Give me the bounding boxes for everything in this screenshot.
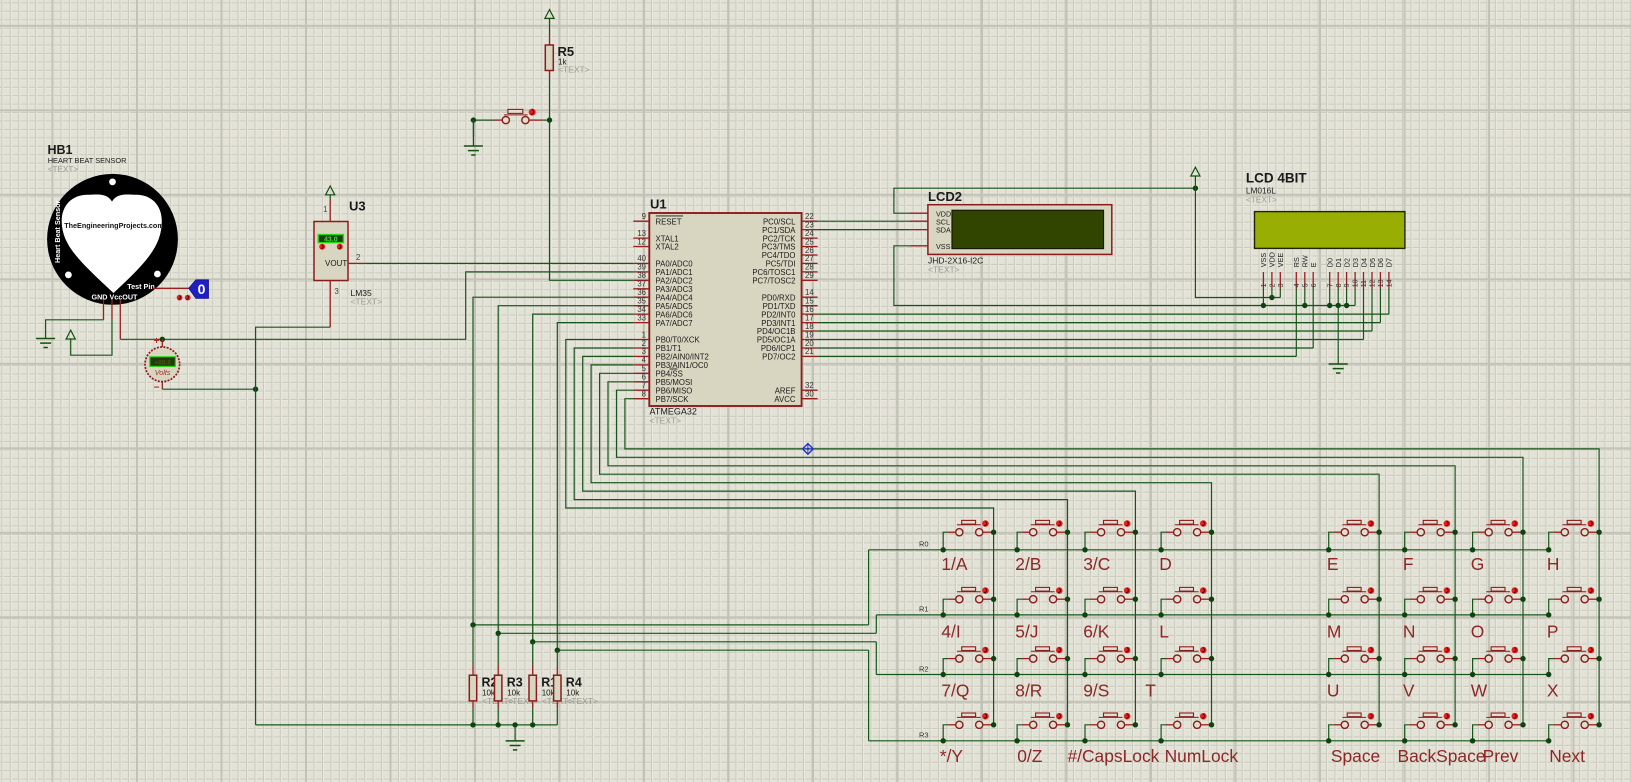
label E <box>1327 554 1339 574</box>
svg-text:L: L <box>1159 621 1169 641</box>
svg-text:U3: U3 <box>349 199 366 214</box>
display LCD2 JHD-2X16-I2C body <box>928 205 1112 255</box>
pin 4 PB3/AIN1/OC0 (U1 left) <box>633 356 708 370</box>
label R0 <box>919 540 929 549</box>
button X <box>1546 647 1602 678</box>
label NumLock <box>1165 746 1239 766</box>
label G <box>1471 554 1485 574</box>
svg-text:9: 9 <box>642 212 646 221</box>
label 7/Q <box>941 681 969 701</box>
label 8/R <box>1015 681 1042 701</box>
wire RS to PD7 line <box>1295 289 1297 357</box>
wire D6 to PD3 line <box>1379 289 1381 323</box>
button BackSpace <box>1402 713 1458 744</box>
svg-text:RESET: RESET <box>656 217 682 226</box>
label Space <box>1331 746 1380 766</box>
svg-text:<TEXT>: <TEXT> <box>928 265 960 275</box>
svg-text:0: 0 <box>198 281 206 297</box>
label 0/Z <box>1017 746 1043 766</box>
svg-text:PC7/TOSC2: PC7/TOSC2 <box>752 277 795 286</box>
button 1/A <box>941 520 997 552</box>
logic state tag 0 <box>189 280 209 298</box>
junction button-ground <box>471 117 476 122</box>
pin 14 D7 (LM016L) <box>1385 258 1394 289</box>
label LM35 <box>351 288 383 307</box>
pin 3 U3 GND wire down-left-down to ground rail <box>256 281 339 725</box>
temperature sensor U3 LM35 body <box>314 222 348 281</box>
label W <box>1471 681 1488 701</box>
pin VDD LCD2 wire to power node <box>894 186 1198 214</box>
wire power flag to R5 <box>549 23 551 45</box>
pin 14 PD0/RXD (U1 right) <box>762 288 818 302</box>
svg-text:<TEXT>: <TEXT> <box>558 65 590 75</box>
probe dots (test pin) <box>177 295 191 301</box>
wire VSS to gnd rail <box>1261 289 1266 309</box>
label N <box>1403 621 1416 641</box>
svg-text:29: 29 <box>805 271 814 280</box>
wire HB1 OUT to U1 PA1 (node with voltmeter +) <box>120 272 633 342</box>
wire HB1 GND pin to ground <box>46 300 104 330</box>
label R3 10k <box>507 676 539 707</box>
label U1 <box>650 197 667 212</box>
wire PD6 to LCD E <box>818 347 1314 349</box>
label LCD2 <box>928 189 962 204</box>
wire D1 to gnd rail <box>1336 289 1341 309</box>
svg-text:<TEXT>: <TEXT> <box>48 165 79 174</box>
svg-text:LCD2: LCD2 <box>928 189 962 204</box>
label BackSpace <box>1398 746 1486 766</box>
wire D4 to PD5 line <box>1363 289 1365 340</box>
svg-text:1: 1 <box>323 205 327 214</box>
wire D7 to PD2 line <box>1388 289 1390 315</box>
label R1 10k <box>541 676 573 707</box>
pin 10 D3 (LM016L) <box>1351 258 1360 289</box>
wire D0 to gnd rail <box>1327 289 1332 309</box>
ground (push button) <box>464 120 483 155</box>
wire PB5 to keypad column 6 <box>608 382 1455 725</box>
svg-text:V: V <box>1403 681 1415 701</box>
pin 35 PA5/ADC5 (U1 left) <box>633 297 693 311</box>
wire PB6 to keypad column 7 <box>617 390 1524 725</box>
label 4/I <box>941 621 960 641</box>
pin 1 VSS (LM016L) <box>1259 253 1268 289</box>
label 5/J <box>1015 621 1038 641</box>
pin 40 PA0/ADC0 (U1 left) <box>633 254 693 268</box>
svg-text:AVCC: AVCC <box>774 395 795 404</box>
pin 32 AREF (U1 right) <box>775 381 818 395</box>
svg-text:43.0: 43.0 <box>324 237 338 244</box>
ground (LM016L) <box>1329 355 1348 373</box>
button Next <box>1546 713 1602 744</box>
wire PD4 to LCD D5 <box>818 330 1372 332</box>
wire U1 R3 net: PA pin to resistor R4 junction and keypad row R3 <box>555 323 869 741</box>
svg-text:G: G <box>1471 554 1485 574</box>
ground (resistor rail) <box>506 725 525 750</box>
pin 2 VDD (LM016L) <box>1268 252 1277 288</box>
resistor R2 10k <box>469 625 476 725</box>
svg-text:3/C: 3/C <box>1083 554 1110 574</box>
svg-text:14: 14 <box>1385 279 1394 287</box>
button F <box>1402 520 1458 552</box>
wire PB2 to keypad column 3 <box>583 356 1136 724</box>
label 9/S <box>1083 681 1109 701</box>
label R2 <box>919 664 929 673</box>
wire PB1 to keypad column 2 <box>574 348 1067 725</box>
svg-text:F: F <box>1403 554 1414 574</box>
svg-text:D7: D7 <box>1385 258 1394 267</box>
svg-text:P: P <box>1547 621 1559 641</box>
svg-text:9/S: 9/S <box>1083 681 1109 701</box>
pin 17 PD3/INT1 (U1 right) <box>761 313 817 327</box>
pin 21 PD7/OC2 (U1 right) <box>762 347 817 361</box>
svg-text:PA7/ADC7: PA7/ADC7 <box>656 319 693 328</box>
button 2/B <box>1014 520 1070 552</box>
svg-text:2: 2 <box>356 253 360 262</box>
button H <box>1546 520 1602 552</box>
svg-text:8/R: 8/R <box>1015 681 1042 701</box>
svg-text:M: M <box>1327 621 1342 641</box>
pin 11 D4 (LM016L) <box>1359 258 1368 289</box>
svg-text:HB1: HB1 <box>48 143 73 157</box>
pin 39 PA1/ADC1 (U1 left) <box>633 263 692 277</box>
wire U1 R2 net: PA pin to resistor R1 junction and keypad row R2 <box>530 314 876 674</box>
button M <box>1326 587 1382 617</box>
pin 36 PA4/ADC4 (U1 left) <box>633 288 693 302</box>
label JHD-2X16-I2C <box>928 256 983 275</box>
label R5 value 1k <box>558 44 590 75</box>
svg-text:W: W <box>1471 681 1488 701</box>
label LCD 4BIT LM016L <box>1246 171 1308 205</box>
pin 27 PC5/TDI (U1 right) <box>766 254 818 268</box>
pin 37 PA3/ADC3 (U1 left) <box>633 280 692 294</box>
pin 8 PB7/SCK (U1 left) <box>633 390 689 404</box>
svg-text:+88.8: +88.8 <box>154 360 171 367</box>
button V <box>1402 647 1458 678</box>
wire keypad row line R2 <box>876 674 1548 676</box>
origin marker (blue diamond) <box>803 444 814 455</box>
svg-text:R3: R3 <box>507 676 523 690</box>
svg-text:Next: Next <box>1549 746 1585 766</box>
button 9/S <box>1082 647 1138 678</box>
button 4/I <box>941 587 997 617</box>
svg-text:<TEXT>: <TEXT> <box>1246 194 1277 204</box>
pin 33 PA7/ADC7 (U1 left) <box>633 313 692 327</box>
label H <box>1547 554 1560 574</box>
button 7/Q <box>941 647 997 678</box>
svg-text:R1: R1 <box>919 605 929 614</box>
pin 7 PB6/MISO (U1 left) <box>633 381 692 395</box>
resistor R1 10k <box>529 642 536 725</box>
label */Y <box>940 746 964 766</box>
wire PB4 to keypad column 5 <box>600 373 1380 725</box>
pin 4 RS (LM016L) <box>1292 257 1301 288</box>
label 1/A <box>941 554 968 574</box>
svg-text:R0: R0 <box>919 540 929 549</box>
label 3/C <box>1083 554 1110 574</box>
button 6/K <box>1082 587 1138 617</box>
pin 1 PB0/T0/XCK (U1 left) <box>633 330 700 344</box>
svg-text:LCD 4BIT: LCD 4BIT <box>1246 171 1308 186</box>
label HB1 HEART BEAT SENSOR <box>48 143 127 174</box>
label D <box>1159 554 1172 574</box>
svg-text:N: N <box>1403 621 1416 641</box>
svg-text:3: 3 <box>1276 283 1285 287</box>
pin 8 D1 (LM016L) <box>1334 258 1343 289</box>
pin 20 PD6/ICP1 (U1 right) <box>761 339 818 353</box>
svg-text:E: E <box>1327 554 1339 574</box>
svg-text:Volts: Volts <box>155 368 171 377</box>
button G <box>1470 520 1526 552</box>
wire R5 to push button junction, down to PA2 <box>547 79 634 281</box>
button N <box>1402 587 1458 617</box>
button Space <box>1326 713 1382 744</box>
wire ground rail under resistors <box>256 722 558 727</box>
svg-text:<TEXT>: <TEXT> <box>351 297 383 307</box>
label #/CapsLock <box>1068 746 1160 766</box>
pin VSS LCD2 wire to ground rail <box>894 246 1355 306</box>
svg-text:XTAL2: XTAL2 <box>656 243 679 252</box>
svg-text:12: 12 <box>637 237 646 246</box>
wire PD7 to LCD RS <box>818 355 1297 357</box>
power flag +V (U3) <box>326 186 335 200</box>
svg-text:U: U <box>1327 681 1340 701</box>
label U <box>1327 681 1340 701</box>
resistor R3 10k <box>495 633 502 725</box>
pin SDA LCD2 wire from U1 PC1 <box>818 229 928 231</box>
display LM016L screen <box>1255 212 1405 249</box>
wire HB1 test pin to logic tag <box>153 287 189 289</box>
resistor R5 <box>545 45 553 79</box>
svg-text:O: O <box>1471 621 1485 641</box>
pin 3 VEE (LM016L) <box>1276 253 1285 289</box>
label F <box>1403 554 1414 574</box>
pin 12 XTAL2 (U1 left) <box>633 237 678 251</box>
svg-text:H: H <box>1547 554 1560 574</box>
svg-text:Heart Beat Sensor: Heart Beat Sensor <box>53 200 62 263</box>
label U3 <box>349 199 366 214</box>
pin 22 PC0/SCL (U1 right) <box>763 212 818 226</box>
pin 29 PC7/TOSC2 (U1 right) <box>752 271 817 285</box>
button 5/J <box>1014 587 1070 617</box>
wire PD5 to LCD D4 <box>818 339 1364 341</box>
label V <box>1403 681 1415 701</box>
button D <box>1158 520 1214 552</box>
label ATMEGA32 <box>650 407 697 426</box>
button 3/C <box>1082 520 1138 552</box>
pin 34 PA6/ADC6 (U1 left) <box>633 305 692 319</box>
svg-text:BackSpace: BackSpace <box>1398 746 1486 766</box>
svg-text:30: 30 <box>805 390 814 399</box>
svg-text:8: 8 <box>642 390 646 399</box>
label P <box>1547 621 1559 641</box>
svg-text:HEART BEAT SENSOR: HEART BEAT SENSOR <box>48 156 127 165</box>
pin 19 PD5/OC1A (U1 right) <box>757 330 818 344</box>
button 8/R <box>1014 647 1070 678</box>
wire HB1 Vcc pin to power flag <box>71 300 112 355</box>
button */Y <box>941 713 997 744</box>
svg-text:*/Y: */Y <box>940 746 964 766</box>
svg-text:<TEXT>: <TEXT> <box>650 416 682 426</box>
label T <box>1145 681 1156 701</box>
svg-text:SDA: SDA <box>936 226 951 235</box>
svg-text:VSS: VSS <box>936 242 951 251</box>
svg-text:R4: R4 <box>566 676 582 690</box>
label Prev <box>1483 746 1519 766</box>
wire VEE to power node <box>1279 289 1281 298</box>
button W <box>1470 647 1526 678</box>
svg-text:0/Z: 0/Z <box>1017 746 1043 766</box>
svg-text:TheEngineeringProjects.com: TheEngineeringProjects.com <box>64 221 163 230</box>
wire RW to gnd rail <box>1302 289 1307 309</box>
button O <box>1470 587 1526 617</box>
svg-text:GND VccOUT: GND VccOUT <box>92 293 139 302</box>
pin 2 PB1/T1 (U1 left) <box>633 339 681 353</box>
pin 25 PC3/TMS (U1 right) <box>762 237 818 251</box>
pin 13 XTAL1 (U1 left) <box>633 229 678 243</box>
svg-text:PD7/OC2: PD7/OC2 <box>762 353 795 362</box>
svg-text:R2: R2 <box>919 664 929 673</box>
svg-text:2/B: 2/B <box>1015 554 1041 574</box>
wire U1 R0 net: PA pin to resistor R2 junction and keypad row R0 <box>470 297 868 627</box>
svg-text:6/K: 6/K <box>1083 621 1110 641</box>
voltmeter Volts <box>145 336 180 393</box>
pin 7 D0 (LM016L) <box>1325 258 1334 289</box>
sensor HB1 body (black disc with heart) <box>47 174 178 305</box>
svg-text:PB7/SCK: PB7/SCK <box>656 395 690 404</box>
wire keypad row line R3 <box>869 740 1549 742</box>
svg-text:21: 21 <box>805 347 814 356</box>
wire PB0 to keypad column 1 <box>566 340 994 725</box>
svg-text:E: E <box>1309 262 1318 267</box>
pin 15 PD1/TXD (U1 right) <box>763 297 818 311</box>
wire PD2 to LCD D7 <box>818 313 1389 315</box>
button #/CapsLock <box>1082 713 1138 744</box>
wire keypad row line R0 <box>869 549 1549 551</box>
button Prev <box>1470 713 1526 744</box>
wire D2 to gnd rail <box>1344 289 1349 309</box>
svg-text:<TEXT>: <TEXT> <box>566 696 598 706</box>
wire VDD to power node <box>1271 289 1273 298</box>
button L <box>1158 587 1214 617</box>
pin 6 E (LM016L) <box>1309 262 1318 288</box>
wire LM016L D1 column down to ground <box>1337 306 1339 356</box>
svg-text:6: 6 <box>1309 283 1318 287</box>
pin SCL LCD2 wire from U1 PC0 <box>818 220 928 222</box>
svg-text:T: T <box>1145 681 1156 701</box>
label L <box>1159 621 1169 641</box>
label R1 <box>919 605 929 614</box>
pin 18 PD4/OC1B (U1 right) <box>757 322 818 336</box>
pin 3 PB2/AIN0/INT2 (U1 left) <box>633 347 709 361</box>
pin 30 AVCC (U1 right) <box>774 390 817 404</box>
svg-text:X: X <box>1547 681 1559 701</box>
pin 28 PC6/TOSC1 (U1 right) <box>752 263 817 277</box>
pin 13 D6 (LM016L) <box>1376 258 1385 289</box>
svg-text:1/A: 1/A <box>941 554 968 574</box>
svg-text:D: D <box>1159 554 1172 574</box>
pin 23 PC1/SDA (U1 right) <box>762 220 817 234</box>
pin 5 RW (LM016L) <box>1300 255 1309 288</box>
svg-text:NumLock: NumLock <box>1165 746 1239 766</box>
svg-text:5/J: 5/J <box>1015 621 1038 641</box>
wire U1 R1 net: PA pin to resistor R3 junction and keypad row R1 <box>496 306 877 636</box>
svg-text:3: 3 <box>335 287 339 296</box>
wire power node down to LM016L VDD/VEE <box>1195 180 1280 300</box>
svg-text:U1: U1 <box>650 197 667 212</box>
svg-text:Prev: Prev <box>1483 746 1519 766</box>
button U <box>1326 647 1382 678</box>
svg-text:7/Q: 7/Q <box>941 681 969 701</box>
button E <box>1326 520 1382 552</box>
power flag +V (LCD nets) <box>1191 167 1200 181</box>
label R2 10k <box>482 676 514 707</box>
wire D3 to gnd rail <box>1354 289 1356 306</box>
resistor R4 10k <box>554 650 561 725</box>
wire E to PD6 line <box>1312 289 1314 349</box>
svg-text:4/I: 4/I <box>941 621 960 641</box>
pin 16 PD2/INT0 (U1 right) <box>761 305 817 319</box>
button NumLock <box>1158 713 1214 744</box>
svg-text:+: + <box>154 336 160 347</box>
pin 26 PC4/TDO (U1 right) <box>762 246 818 260</box>
button 0/Z <box>1014 713 1070 744</box>
svg-text:VEE: VEE <box>1276 253 1285 268</box>
svg-text:33: 33 <box>637 313 646 322</box>
svg-text:R3: R3 <box>919 731 929 740</box>
svg-text:Space: Space <box>1331 746 1380 766</box>
label 2/B <box>1015 554 1041 574</box>
label 6/K <box>1083 621 1110 641</box>
button P <box>1546 587 1602 617</box>
pin 38 PA2/ADC2 (U1 left) <box>633 271 692 285</box>
wire PD3 to LCD D6 <box>818 322 1381 324</box>
wire PB3 to keypad column 4 <box>591 365 1211 725</box>
label M <box>1327 621 1342 641</box>
power flag +V (R5 top) <box>545 10 554 24</box>
pin 5 PB4/SS (U1 left) <box>633 364 683 378</box>
power flag +V (HB1) <box>66 330 75 344</box>
svg-text:−: − <box>154 382 160 393</box>
svg-text:VOUT: VOUT <box>325 259 347 268</box>
ground (HB1) <box>36 330 55 348</box>
pin 24 PC2/TCK (U1 right) <box>763 229 818 243</box>
label R4 10k <box>566 676 598 707</box>
label Next <box>1549 746 1585 766</box>
svg-text:#/CapsLock: #/CapsLock <box>1068 746 1160 766</box>
wire PB7 to keypad column 8 <box>625 399 1599 725</box>
label X <box>1547 681 1559 701</box>
microcontroller U1 ATMEGA32 body <box>649 213 801 406</box>
pin 1 U3 <box>323 200 330 222</box>
button T <box>1158 647 1214 678</box>
label R3 <box>919 731 929 740</box>
pin 9 D2 (LM016L) <box>1342 258 1351 289</box>
wire D5 to PD4 line <box>1371 289 1373 332</box>
pin 12 D5 (LM016L) <box>1368 258 1377 289</box>
pin 6 PB5/MOSI (U1 left) <box>633 373 692 387</box>
pin 9 RESET (U1 left) <box>633 212 683 226</box>
push button SW-R5 <box>473 109 546 124</box>
wire keypad row line R1 <box>876 614 1548 616</box>
svg-text:Test Pin: Test Pin <box>127 282 154 291</box>
label O <box>1471 621 1485 641</box>
wire voltmeter - to LM35 gnd net <box>162 387 258 392</box>
pin 2 U3 VOUT wire to U1 PA0 <box>348 253 633 263</box>
